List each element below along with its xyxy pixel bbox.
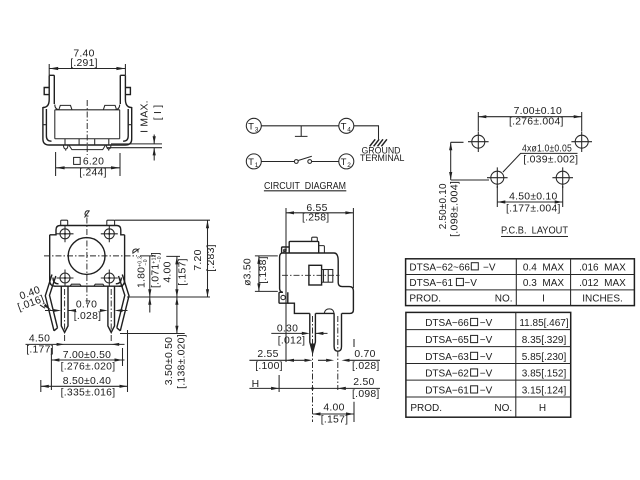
body bottom edge [55, 285, 124, 287]
arrow right 6.20 [111, 166, 120, 169]
svg-text:5.85[.230]: 5.85[.230] [522, 352, 567, 363]
pin 1 (left) [310, 313, 316, 352]
svg-text:I MAX.: I MAX. [140, 100, 151, 133]
svg-text:DTSA−61: DTSA−61 [409, 278, 453, 289]
right mount tab [125, 88, 130, 95]
svg-text:T: T [248, 157, 254, 168]
svg-text:T: T [341, 157, 347, 168]
dim line 6.20 [56, 152, 120, 176]
wire T1 to switch [261, 161, 294, 163]
centerline symbol right [133, 249, 140, 254]
plunger rect B [322, 270, 333, 283]
svg-text:0.30: 0.30 [277, 324, 298, 335]
svg-text:−V: −V [480, 335, 493, 346]
pin centerlines [65, 289, 112, 342]
svg-text:0.70: 0.70 [354, 349, 375, 360]
svg-text:4xø1.0±0.05: 4xø1.0±0.05 [522, 143, 572, 154]
svg-text:[.028]: [.028] [352, 361, 380, 372]
svg-text:[.276±.020]: [.276±.020] [61, 362, 116, 373]
body bottom edge [55, 138, 120, 140]
ref line body bottom [111, 143, 162, 145]
hole bottom-right [552, 167, 573, 188]
svg-text:[.157]: [.157] [177, 258, 188, 286]
arrow up I MAX [153, 148, 156, 156]
horizontal centerline [282, 274, 340, 276]
svg-text:−V: −V [483, 262, 496, 273]
svg-text:.016 MAX: .016 MAX [579, 262, 626, 273]
svg-text:[ I ]: [ I ] [153, 105, 164, 121]
svg-text:NO.: NO. [495, 294, 513, 305]
switch contact left [294, 160, 298, 164]
top ext line [115, 219, 210, 221]
corner piece bottom-left [50, 276, 59, 286]
bottom bump [324, 309, 334, 314]
svg-text:[.177±.004]: [.177±.004] [506, 204, 561, 215]
I MAX dim line [153, 135, 155, 161]
body top tab left [61, 220, 68, 225]
body right edge [124, 235, 126, 276]
svg-text:[.244]: [.244] [79, 168, 107, 179]
svg-text:8.35[.329]: 8.35[.329] [522, 335, 567, 346]
hole top-right [571, 131, 592, 152]
svg-text:1.80+0.3−0: 1.80+0.3−0 [136, 256, 149, 288]
wire T4 to ground [354, 126, 379, 139]
terminal T2 [339, 154, 354, 169]
bracket outer U [43, 75, 132, 145]
svg-text:−V: −V [480, 318, 493, 329]
svg-text:7.20: 7.20 [193, 249, 204, 270]
svg-text:[.291]: [.291] [70, 58, 98, 69]
svg-text:[.100]: [.100] [255, 361, 283, 372]
terminal T3 [246, 118, 261, 133]
svg-text:−V: −V [480, 368, 493, 379]
svg-text:−V: −V [480, 352, 493, 363]
stem [69, 145, 106, 150]
svg-text:INCHES.: INCHES. [582, 294, 623, 305]
svg-text:P.C.B. LAYOUT: P.C.B. LAYOUT [501, 226, 568, 237]
svg-text:[.039±.002]: [.039±.002] [523, 155, 578, 166]
pin 1 [61, 286, 68, 332]
svg-text:DTSA−61: DTSA−61 [425, 385, 469, 396]
svg-text:0.3 MAX: 0.3 MAX [523, 278, 564, 289]
left claw tab [282, 247, 290, 253]
svg-text:NO.: NO. [494, 403, 512, 414]
svg-text:2: 2 [347, 162, 351, 169]
pin 2 [108, 286, 115, 332]
mount hole TR [101, 225, 118, 242]
plunger rect A [309, 265, 322, 285]
svg-text:ø3.50: ø3.50 [243, 258, 254, 286]
svg-text:0.4 MAX: 0.4 MAX [523, 262, 564, 273]
svg-text:TERMINAL: TERMINAL [360, 153, 405, 163]
horizontal centerline [44, 255, 137, 257]
ground tap [295, 126, 308, 137]
body left edge [49, 235, 51, 276]
bracket inner walls [46, 75, 128, 141]
body outline [282, 253, 354, 313]
bottom bump left [70, 284, 81, 286]
svg-text:PROD.: PROD. [409, 294, 441, 305]
foot circle [281, 295, 285, 299]
foot box [279, 292, 288, 303]
svg-text:4: 4 [347, 126, 351, 133]
svg-text:[.098]: [.098] [352, 389, 380, 400]
tab right block [319, 246, 325, 253]
svg-text:2.50±0.10: 2.50±0.10 [438, 183, 449, 229]
body top bump left [59, 105, 72, 109]
pin 2 (right) [334, 313, 341, 351]
switch contact right [308, 160, 312, 164]
svg-text:−V: −V [464, 278, 477, 289]
svg-text:I: I [542, 294, 545, 305]
svg-text:T: T [248, 121, 254, 132]
outer leg left [45, 275, 57, 331]
svg-text:8.50±0.40: 8.50±0.40 [63, 376, 111, 387]
svg-text:3.50±0.50: 3.50±0.50 [164, 337, 175, 385]
leader line [503, 153, 578, 172]
0.40 leader arrow [40, 305, 45, 308]
switch lever [298, 156, 312, 160]
svg-text:1: 1 [255, 162, 259, 169]
svg-text:CIRCUIT DIAGRAM: CIRCUIT DIAGRAM [264, 181, 346, 192]
svg-text:H: H [539, 403, 546, 414]
svg-text:DTSA−62~66: DTSA−62~66 [409, 262, 470, 273]
terminal T1 [246, 154, 261, 169]
center line vertical [86, 100, 88, 155]
right claw [106, 145, 111, 151]
left claw [63, 145, 68, 151]
svg-text:DTSA−66: DTSA−66 [425, 318, 469, 329]
tab nub [312, 237, 318, 241]
svg-text:3.15[.124]: 3.15[.124] [522, 385, 567, 396]
svg-text:7.00±0.50: 7.00±0.50 [63, 350, 111, 361]
dim line 7.40 [49, 64, 125, 75]
body top bump right [103, 105, 116, 109]
mount hole TL [57, 225, 74, 242]
svg-text:3.85[.152]: 3.85[.152] [522, 368, 567, 379]
corner piece bottom-right [116, 276, 125, 286]
arrow down I MAX [153, 136, 156, 144]
svg-text:[.258]: [.258] [302, 213, 330, 224]
vertical centerline [86, 218, 88, 306]
svg-text:4.50±0.10: 4.50±0.10 [509, 192, 557, 203]
wall tick marks [43, 124, 132, 126]
bottom bump right [94, 284, 105, 286]
arrow left 7.40 [49, 67, 58, 70]
svg-text:[.071+12−0]: [.071+12−0] [150, 252, 163, 288]
terminal T4 [339, 118, 354, 133]
body top edge [56, 226, 121, 231]
svg-text:2.50: 2.50 [353, 377, 374, 388]
hole bottom-left [487, 167, 508, 188]
svg-text:[.177]: [.177] [26, 345, 54, 356]
svg-text:[.098±.004]: [.098±.004] [450, 181, 461, 237]
svg-text:[.335±.016]: [.335±.016] [61, 388, 116, 399]
hole top-left [468, 131, 489, 152]
arrow left 6.20 [56, 166, 65, 169]
svg-text:7.00±0.10: 7.00±0.10 [514, 106, 562, 117]
seating line [127, 296, 210, 298]
centerline symbol top [85, 211, 90, 218]
mounting face ext [278, 375, 280, 392]
plunger inner line [324, 270, 329, 283]
bottom band ticks [65, 139, 109, 145]
body top tab right [107, 220, 115, 225]
svg-text:3: 3 [255, 126, 259, 133]
ground hatch [370, 139, 387, 146]
svg-text:PROD.: PROD. [410, 403, 442, 414]
svg-text:0.70: 0.70 [76, 300, 97, 311]
wire switch to T2 [312, 161, 339, 163]
svg-text:2.55: 2.55 [257, 349, 278, 360]
svg-text:6.20: 6.20 [83, 157, 104, 168]
body shoulders [50, 230, 125, 235]
svg-text:DTSA−63: DTSA−63 [425, 352, 469, 363]
arrow right 7.40 [116, 67, 125, 70]
boss left face [280, 253, 283, 292]
svg-text:4.00: 4.00 [323, 403, 344, 414]
left mount tab [44, 88, 49, 95]
claw circle [284, 249, 287, 252]
body top edge [55, 105, 120, 110]
square symbol 6.20 [74, 157, 81, 164]
svg-text:4.00: 4.00 [163, 261, 174, 282]
top mounting tab [289, 241, 319, 252]
right edge ext segment [353, 339, 355, 347]
pin centerlines [313, 316, 338, 422]
svg-text:[.157]: [.157] [321, 415, 349, 426]
outer leg right [117, 275, 129, 331]
ref line stem bottom [107, 147, 162, 149]
svg-text:[.276±.004]: [.276±.004] [509, 117, 564, 128]
wire T3-T4 [261, 125, 339, 127]
svg-text:[.028]: [.028] [74, 311, 102, 322]
svg-text:DTSA−62: DTSA−62 [425, 368, 469, 379]
svg-text:T: T [341, 121, 347, 132]
mount hole BR [101, 270, 118, 287]
body sides [55, 110, 120, 139]
big circle button [68, 238, 105, 275]
bracket arm caps [49, 74, 125, 76]
svg-text:4.50: 4.50 [29, 334, 50, 345]
svg-text:11.85[.467]: 11.85[.467] [519, 318, 569, 329]
mount hole BL [57, 270, 74, 287]
svg-text:[.012]: [.012] [278, 336, 306, 347]
svg-text:.012 MAX: .012 MAX [579, 278, 626, 289]
2.50 dim [451, 142, 489, 180]
svg-text:[.138±.020]: [.138±.020] [176, 334, 187, 389]
svg-text:−V: −V [480, 385, 493, 396]
svg-text:DTSA−65: DTSA−65 [425, 335, 469, 346]
